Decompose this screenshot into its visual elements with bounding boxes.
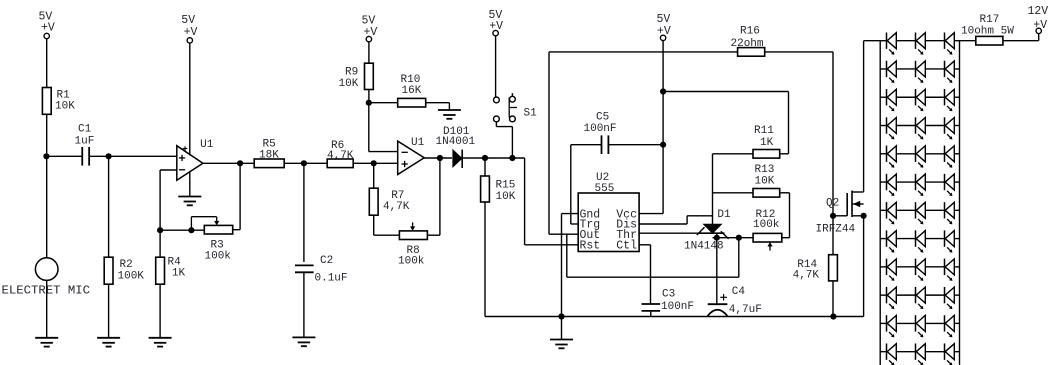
power terminal +V 5V (op-amp U1a): [181, 14, 197, 43]
wire: [462, 157, 524, 159]
wire: LED array left rail: [879, 41, 881, 365]
resistor R11 1K: [753, 125, 780, 158]
LED D72 (row 7, col 2): [916, 202, 926, 224]
wire: [549, 51, 738, 53]
node: mic/C1 junction: [43, 153, 49, 159]
LED D23 (row 2, col 3): [945, 61, 955, 83]
wire: [203, 162, 254, 164]
resistor R7 4,7K: [369, 188, 410, 215]
wire: [108, 156, 110, 257]
svg-text:+V: +V: [489, 20, 503, 33]
wire: [639, 245, 650, 304]
resistor R13 10K: [753, 164, 780, 197]
svg-text:R9: R9: [345, 67, 358, 79]
svg-text:R11: R11: [754, 125, 774, 137]
wire: [713, 153, 754, 155]
wire: [368, 42, 370, 63]
resistor R14 4,7K: [793, 255, 838, 282]
LED D62 (row 6, col 2): [916, 174, 926, 196]
ground (rail): [550, 340, 573, 349]
wire: LED row 1: [880, 40, 959, 42]
wire: LED row 7: [880, 209, 959, 211]
resistor R4 1K: [156, 257, 186, 285]
svg-text:C3: C3: [662, 289, 675, 301]
wire: LED row 3: [880, 96, 959, 98]
LED D13 (row 1, col 3): [945, 33, 955, 55]
wire: [663, 92, 788, 154]
wire: [571, 144, 602, 146]
svg-text:16K: 16K: [402, 85, 422, 97]
svg-text:22ohm: 22ohm: [731, 38, 764, 50]
node: D1 cathode/C4 junction: [714, 235, 720, 241]
LED D22 (row 2, col 2): [916, 61, 926, 83]
wire: LED row 11: [880, 322, 959, 324]
svg-text:100nF: 100nF: [661, 301, 694, 313]
power terminal +V 5V (R9): [362, 15, 378, 42]
LED D82 (row 8, col 2): [916, 230, 926, 252]
svg-text:U1: U1: [200, 139, 214, 151]
wire: [160, 229, 204, 231]
svg-text:C2: C2: [320, 255, 333, 267]
LED D61 (row 6, col 1): [887, 174, 897, 196]
node: C2 junction: [301, 160, 307, 166]
svg-text:C1: C1: [78, 124, 92, 136]
LED D91 (row 9, col 1): [887, 259, 897, 281]
node: C5/5V junction: [660, 142, 666, 148]
wire: [549, 52, 578, 234]
wire: [562, 214, 579, 317]
svg-text:C4: C4: [732, 286, 746, 298]
LED D31 (row 3, col 1): [887, 89, 897, 111]
wire: [368, 90, 370, 103]
wire: [713, 233, 754, 238]
power terminal +V 5V (555): [657, 13, 671, 41]
svg-text:D1: D1: [717, 209, 731, 221]
resistor R1 10K: [42, 88, 75, 115]
LED D113 (row 11, col 3): [945, 315, 955, 337]
capacitor C4 4,7uF (electrolytic): [708, 286, 762, 316]
LED D112 (row 11, col 2): [916, 315, 926, 337]
wire: LED row 10: [880, 294, 959, 296]
wire: [567, 234, 739, 277]
ground (R4): [149, 338, 172, 347]
wire: [89, 155, 108, 157]
svg-text:+V: +V: [41, 22, 55, 35]
resistor R10 16K: [398, 74, 426, 107]
svg-text:1K: 1K: [760, 137, 774, 149]
diode D101 1N4001: [436, 126, 476, 168]
svg-text:4,7K: 4,7K: [327, 150, 354, 162]
svg-text:0.1uF: 0.1uF: [315, 273, 348, 285]
wire: [571, 145, 578, 224]
electret microphone MIC1: [2, 258, 91, 298]
node: op-amp1 output junction: [237, 160, 243, 166]
wire: [373, 163, 375, 188]
wire: [639, 232, 698, 234]
wire: [713, 192, 754, 194]
svg-text:U1: U1: [411, 137, 425, 149]
svg-text:Ctl: Ctl: [616, 240, 637, 253]
node: R12 left junction: [736, 235, 742, 241]
LED D122 (row 12, col 2): [916, 343, 926, 365]
svg-text:10K: 10K: [496, 191, 516, 203]
node: R15 junction: [482, 155, 488, 161]
wire: [1003, 34, 1039, 41]
svg-text:4,7K: 4,7K: [383, 201, 410, 213]
svg-text:ELECTRET MIC: ELECTRET MIC: [2, 284, 91, 298]
svg-text:1K: 1K: [172, 268, 186, 280]
LED D33 (row 3, col 3): [945, 89, 955, 111]
wire: LED row 8: [880, 238, 959, 240]
capacitor C1 1uF: [75, 124, 95, 166]
LED D73 (row 7, col 3): [945, 202, 955, 224]
svg-text:10K: 10K: [339, 78, 359, 90]
LED D63 (row 6, col 3): [945, 174, 955, 196]
LED D123 (row 12, col 3): [945, 343, 955, 365]
wire: [495, 36, 497, 97]
wire: [484, 158, 486, 176]
svg-text:C5: C5: [596, 112, 609, 124]
wire: [46, 39, 48, 88]
svg-text:IRFZ44: IRFZ44: [816, 224, 856, 236]
wire: [369, 103, 398, 152]
LED D43 (row 4, col 3): [945, 117, 955, 139]
node: S1 junction: [509, 155, 515, 161]
svg-text:10ohm 5W: 10ohm 5W: [961, 25, 1014, 37]
wire: [303, 163, 305, 262]
svg-text:1uF: 1uF: [75, 136, 95, 148]
node: Q2 gate junction: [830, 213, 836, 219]
wire: [639, 41, 663, 214]
resistor R17 10ohm 5W: [961, 14, 1014, 45]
svg-text:R15: R15: [496, 180, 516, 192]
node: R9/R10 junction: [366, 100, 372, 106]
LED D41 (row 4, col 1): [887, 117, 897, 139]
power terminal +V 5V (S1): [489, 9, 504, 36]
node: R3 wiper junction: [188, 227, 194, 233]
capacitor C5 100nF: [584, 112, 617, 155]
LED D102 (row 10, col 2): [916, 287, 926, 309]
svg-text:18K: 18K: [259, 149, 279, 161]
svg-text:100nF: 100nF: [584, 123, 617, 135]
wire: [369, 102, 398, 104]
wire: [712, 154, 714, 224]
svg-text:100k: 100k: [398, 256, 425, 268]
wire: [780, 153, 789, 155]
svg-text:12V: 12V: [1028, 5, 1049, 18]
svg-text:100k: 100k: [205, 251, 232, 263]
LED D93 (row 9, col 3): [945, 259, 955, 281]
mosfet Q2 IRFZ44: [816, 191, 864, 236]
capacitor C3 100nF: [642, 289, 695, 313]
wire: [426, 103, 450, 110]
capacitor C2 0.1uF: [295, 255, 348, 285]
wire: [303, 272, 305, 337]
svg-text:1N4001: 1N4001: [436, 136, 476, 148]
power terminal +V 12V: [1028, 5, 1049, 34]
LED D53 (row 5, col 3): [945, 146, 955, 168]
ground (mic): [35, 338, 58, 347]
wire: [374, 215, 400, 235]
svg-text:S1: S1: [524, 108, 538, 120]
wire: [424, 157, 452, 159]
LED D51 (row 5, col 1): [887, 146, 897, 168]
wire: [561, 317, 563, 340]
wire: [832, 281, 834, 317]
LED D103 (row 10, col 3): [945, 287, 955, 309]
LED D12 (row 1, col 2): [916, 33, 926, 55]
wire: [780, 193, 790, 238]
LED D11 (row 1, col 1): [887, 33, 897, 55]
LED D121 (row 12, col 1): [887, 343, 897, 365]
LED D32 (row 3, col 2): [916, 89, 926, 111]
LED D52 (row 5, col 2): [916, 146, 926, 168]
wire: [525, 158, 579, 245]
node: R11 branch junction: [660, 88, 666, 94]
potentiometer R3 100k: [191, 217, 232, 263]
wire: [46, 156, 48, 257]
svg-text:R2: R2: [120, 259, 133, 271]
LED D42 (row 4, col 2): [916, 117, 926, 139]
node: ground rail junction: [558, 313, 564, 319]
LED D101 (row 10, col 1): [887, 287, 897, 309]
wire: LED row 6: [880, 181, 959, 183]
svg-text:R13: R13: [755, 164, 775, 176]
svg-text:R16: R16: [740, 26, 760, 38]
wire: LED row 4: [880, 125, 959, 127]
LED D83 (row 8, col 3): [945, 230, 955, 252]
LED D81 (row 8, col 1): [887, 230, 897, 252]
IC U2 555: [578, 172, 639, 253]
wire: [765, 52, 833, 216]
push button S1: [494, 93, 538, 122]
wire: [608, 144, 663, 146]
LED D92 (row 9, col 2): [916, 259, 926, 281]
wire: [189, 171, 191, 196]
wire: [189, 43, 191, 155]
wire: [46, 114, 48, 156]
svg-text:Rst: Rst: [580, 240, 601, 253]
resistor R15 10K: [481, 176, 516, 203]
wire: [46, 280, 48, 337]
resistor R6 4,7K: [327, 140, 354, 168]
wire: [284, 162, 327, 164]
op-amp U1 (first stage): [177, 139, 214, 180]
node: op-amp2 output junction: [437, 155, 443, 161]
svg-text:10K: 10K: [755, 176, 775, 188]
wire: [639, 216, 712, 224]
wire: [108, 284, 110, 338]
svg-text:4,7K: 4,7K: [793, 270, 820, 282]
wire: LED row 2: [880, 68, 959, 70]
svg-text:100K: 100K: [118, 271, 145, 283]
node: Q2 source junction: [861, 213, 867, 219]
wire: [863, 216, 865, 317]
wire: [484, 202, 486, 317]
svg-text:4,7uF: 4,7uF: [729, 304, 762, 316]
ground (R2): [97, 338, 120, 347]
resistor R2 100K: [104, 257, 144, 284]
svg-text:+V: +V: [184, 26, 198, 39]
resistor R5 18K: [254, 139, 284, 168]
wire: [833, 215, 847, 217]
svg-text:Q2: Q2: [826, 198, 839, 210]
ground (R10): [438, 110, 461, 119]
wire: [233, 163, 240, 229]
wire: [864, 41, 881, 192]
wire: [46, 155, 82, 157]
node: R14 bottom junction: [830, 313, 836, 319]
ground (C2): [292, 337, 315, 346]
wire: LED array right rail: [959, 41, 961, 365]
wire: [427, 158, 440, 235]
wire: [650, 311, 652, 317]
wire: LED row 12: [880, 351, 959, 353]
LED D21 (row 2, col 1): [887, 61, 897, 83]
ground (op-amp U1a): [178, 197, 201, 206]
power terminal +V 5V (mic bias): [39, 11, 55, 39]
wire: [159, 284, 161, 338]
wire: [832, 216, 834, 255]
diode D1 1N4148: [684, 209, 731, 252]
potentiometer R8 100k: [398, 222, 427, 267]
wire: [353, 162, 398, 164]
resistor R9 10K: [339, 63, 374, 90]
wire: [160, 170, 177, 230]
svg-text:555: 555: [595, 183, 615, 195]
LED D71 (row 7, col 1): [887, 202, 897, 224]
svg-text:1N4148: 1N4148: [684, 240, 724, 252]
node: C1 right junction: [106, 153, 112, 159]
wire: [960, 40, 976, 42]
wire: LED row 5: [880, 153, 959, 155]
node: R7 junction: [371, 160, 377, 166]
op-amp U1 (second stage): [398, 137, 425, 175]
wire: [109, 155, 177, 157]
svg-text:10K: 10K: [55, 101, 75, 113]
ground rail: [485, 316, 864, 318]
wire: [496, 122, 512, 158]
wire: [716, 238, 718, 304]
svg-text:100k: 100k: [753, 219, 780, 231]
svg-text:+V: +V: [1033, 19, 1047, 32]
node: feedback junction: [157, 227, 163, 233]
wire: LED row 9: [880, 266, 959, 268]
resistor R16 22ohm: [731, 26, 765, 57]
potentiometer R12 100k: [753, 209, 782, 251]
svg-text:R7: R7: [391, 190, 404, 202]
wire: [159, 230, 161, 257]
LED D111 (row 11, col 1): [887, 315, 897, 337]
